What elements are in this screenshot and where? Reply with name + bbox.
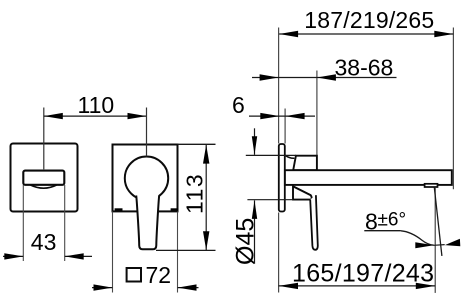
svg-text:72: 72 <box>146 262 172 288</box>
svg-text:Ø45: Ø45 <box>232 218 260 265</box>
svg-text:6: 6 <box>232 92 245 118</box>
svg-text:165/197/243: 165/197/243 <box>292 260 434 288</box>
svg-text:110: 110 <box>78 92 115 118</box>
svg-text:43: 43 <box>31 229 57 255</box>
svg-text:±6°: ±6° <box>378 210 407 231</box>
svg-text:38-68: 38-68 <box>335 55 394 81</box>
svg-text:187/219/265: 187/219/265 <box>304 7 434 33</box>
svg-text:113: 113 <box>182 173 208 214</box>
